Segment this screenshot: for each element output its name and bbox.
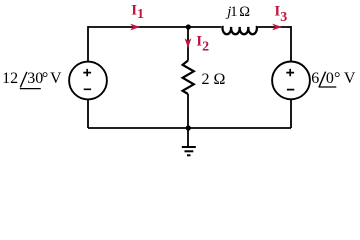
svg-text:6: 6 [311,70,319,87]
svg-text:°: ° [334,70,340,87]
svg-text:12: 12 [2,70,18,87]
svg-text:V: V [50,70,62,87]
svg-text:1: 1 [230,4,237,20]
svg-text:2 Ω: 2 Ω [202,71,226,88]
svg-text:Ω: Ω [239,4,250,20]
svg-text:V: V [344,70,356,87]
svg-text:°: ° [42,70,48,87]
svg-text:30: 30 [27,70,43,87]
svg-text:0: 0 [326,70,334,87]
